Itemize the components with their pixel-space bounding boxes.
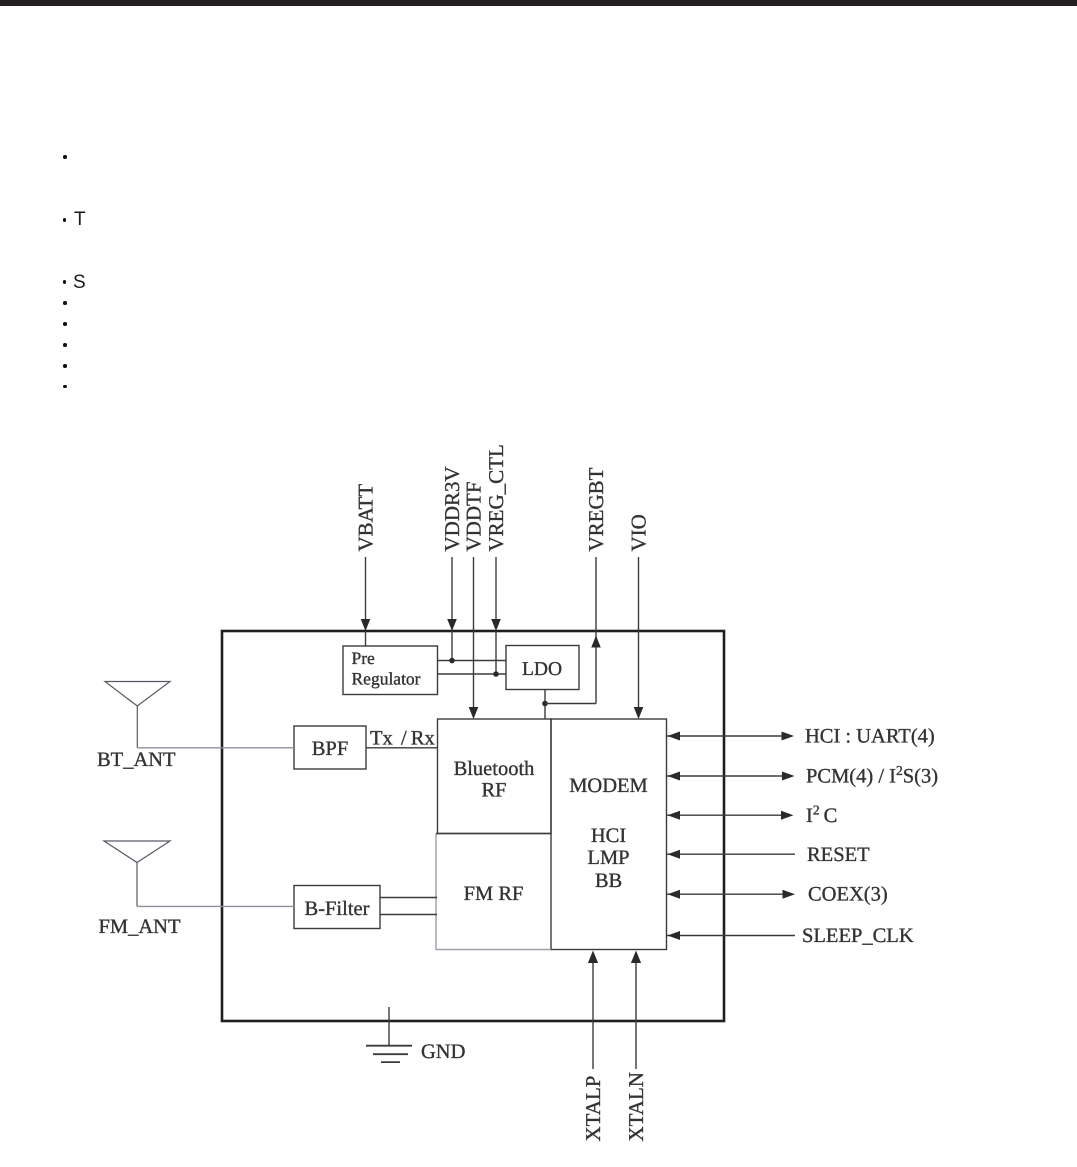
svg-text:RF: RF [481,780,506,802]
SLEEP_CLK wire (input) [667,935,796,937]
wire FM antenna to B-Filter [137,905,294,907]
XTALP arrowhead [588,951,598,964]
VREG_CTL internal wire to node [495,631,497,674]
I2C wire (bidirectional) [667,814,782,816]
svg-text:BPF: BPF [312,738,348,760]
bullet 8 [63,385,67,389]
svg-text:Pre: Pre [352,648,376,668]
bullet 2 letter T [63,218,67,222]
wire LDO output to VREGBT [545,703,596,705]
XTALP wire [592,961,594,1069]
svg-text:FM_ANT: FM_ANT [99,916,181,938]
BT antenna [105,682,170,748]
svg-text:GND: GND [421,1041,465,1063]
ground symbol [366,1046,412,1062]
svg-text:MODEM: MODEM [569,775,648,797]
svg-text:VDDTF: VDDTF [462,481,486,551]
svg-text:SLEEP_CLK: SLEEP_CLK [802,925,914,947]
wire BT antenna to BPF [137,747,294,749]
wire B-Filter to FM RF (upper) [380,897,437,899]
VDDR3V wire [451,557,453,621]
svg-text:PCM(4) / I2S(3): PCM(4) / I2S(3) [806,763,938,788]
VDDR3V internal wire to node [451,631,453,661]
wire BPF to Bluetooth RF [366,747,438,749]
top black banner bar [0,0,1077,6]
svg-text:VREG_CTL: VREG_CTL [484,444,508,551]
svg-text:VDDR3V: VDDR3V [440,466,464,551]
Bluetooth RF block [438,719,552,834]
svg-text:RESET: RESET [807,844,870,866]
VBATT arrowhead [361,619,371,631]
VREGBT wire [595,557,597,704]
XTALN arrowhead [631,951,641,964]
node VDDR3V junction [449,658,455,664]
VIO arrowhead [634,707,644,719]
svg-text:VBATT: VBATT [354,484,378,552]
svg-text:HCI: HCI [591,825,626,847]
svg-text:B-Filter: B-Filter [305,898,370,920]
chip outline (outer box) [222,631,724,1021]
LDO block [506,646,579,690]
PCM wire (bidirectional) [667,775,783,777]
COEX wire (bidirectional) [667,893,784,895]
VREG_CTL wire [495,557,497,621]
bullet 5 [63,322,67,326]
VIO wire [638,557,640,708]
svg-text:XTALN: XTALN [624,1072,648,1141]
wire LDO output down [544,690,546,720]
VBATT wire [365,557,367,621]
VREGBT arrowhead (pointing up at chip edge) [591,636,601,648]
svg-text:Regulator: Regulator [352,669,421,689]
svg-text:VIO: VIO [627,514,651,551]
VDDTF arrowhead [469,707,479,719]
node LDO output junction [542,701,548,707]
HCI UART wire (bidirectional) [667,735,783,737]
svg-text:BT_ANT: BT_ANT [97,749,176,771]
bullet 7 [63,364,67,368]
B-Filter block [294,886,380,929]
VDDR3V arrowhead [447,619,457,631]
svg-text:Bluetooth: Bluetooth [454,758,535,780]
svg-text:Tx / Rx: Tx / Rx [370,728,435,750]
bullet 3 letter S [63,280,67,284]
wire PreRegulator to LDO (upper) [438,660,506,662]
svg-text:HCI : UART(4): HCI : UART(4) [805,726,935,748]
MODEM block [551,719,667,950]
wire PreRegulator to LDO (lower) [438,673,506,675]
Pre Regulator block [343,646,438,695]
svg-text:BB: BB [595,870,622,892]
svg-text:LMP: LMP [587,847,629,869]
svg-text:VREGBT: VREGBT [584,467,608,551]
bullet 1 [63,155,67,159]
FM antenna [104,841,170,906]
svg-text:COEX(3): COEX(3) [808,884,888,906]
FM RF block (grey left/bottom edges) [436,834,551,950]
bullet 6 [63,343,67,347]
wire B-Filter to FM RF (lower) [380,914,437,916]
svg-text:I2 C: I2 C [806,803,837,828]
BPF block [294,726,366,769]
bullet 4 [63,301,67,305]
XTALN wire [635,961,637,1069]
svg-text:LDO: LDO [522,659,562,680]
svg-text:FM RF: FM RF [464,883,524,905]
VDDTF wire [473,557,475,708]
VREG_CTL arrowhead [491,619,501,631]
ground stem [388,1007,390,1046]
node VREG_CTL junction [493,671,499,677]
RESET wire (input) [667,853,796,855]
svg-text:XTALP: XTALP [581,1076,605,1142]
VBATT internal stub to Pre Regulator [365,631,367,646]
